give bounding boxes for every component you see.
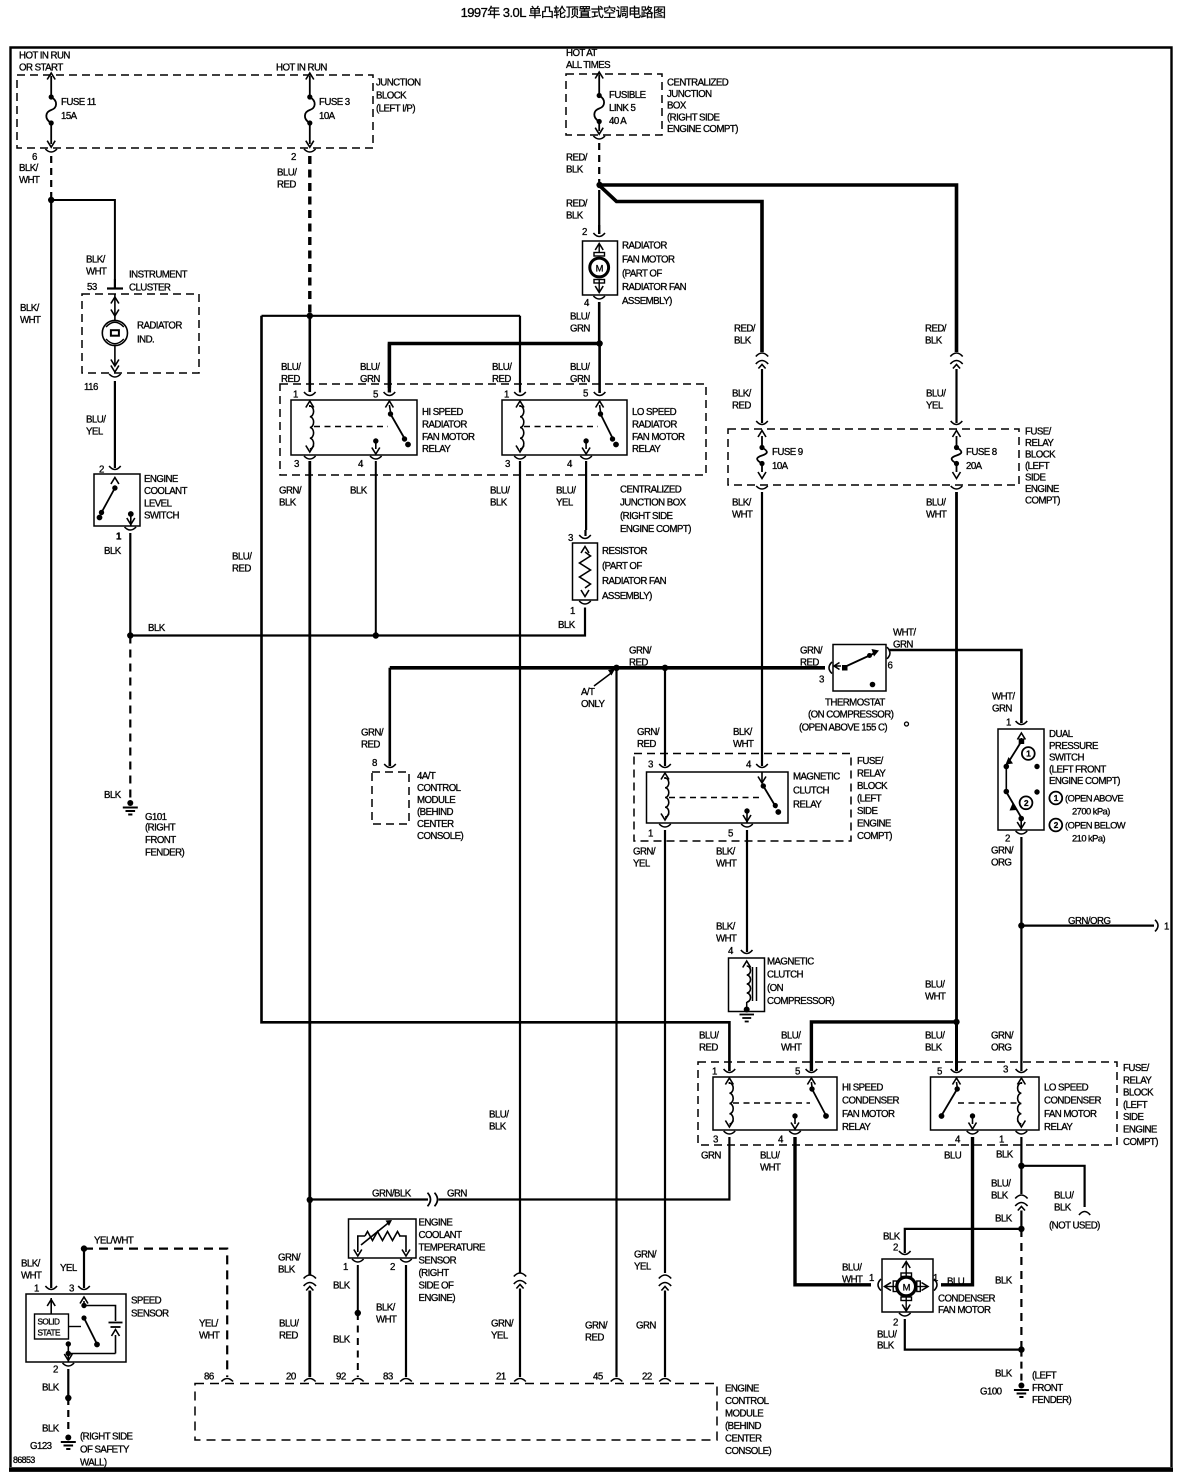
svg-text:(RIGHT: (RIGHT	[145, 823, 176, 834]
radiator fan motor symbol	[590, 244, 609, 293]
wire BLK/WHT label pin6	[19, 163, 40, 186]
svg-text:SWITCH: SWITCH	[1049, 753, 1084, 764]
fuse F8 pin top	[951, 421, 963, 437]
svg-text:(LEFT I/P): (LEFT I/P)	[376, 103, 415, 114]
svg-text:BLK: BLK	[333, 1280, 351, 1291]
label GRN/RED above bus	[629, 645, 652, 668]
svg-text:WHT: WHT	[716, 934, 737, 945]
relay K3 coil	[661, 778, 669, 820]
pin 2 radiator fan motor	[582, 225, 605, 238]
label GRN/YEL below K3 pin1	[633, 846, 656, 869]
label BLU/RED above K4 pin1	[699, 1030, 719, 1053]
svg-text:BLU/: BLU/	[570, 311, 590, 322]
svg-text:RED: RED	[699, 1043, 718, 1054]
relay K3 pin 5 stub	[743, 808, 751, 823]
label GRN/ORG above K5 pin3	[991, 1030, 1014, 1053]
svg-text:CONDENSER: CONDENSER	[842, 1096, 900, 1107]
svg-text:(LEFT: (LEFT	[857, 794, 882, 805]
radiator ind label	[137, 320, 182, 345]
label RED/BLK fuse8 col	[925, 323, 947, 346]
svg-text:MODULE: MODULE	[417, 795, 456, 806]
svg-text:COOLANT: COOLANT	[419, 1230, 463, 1241]
svg-text:1: 1	[504, 390, 509, 401]
wire BLK speed sensor	[42, 1369, 68, 1398]
ECT sensor label	[419, 1218, 487, 1305]
svg-text:1: 1	[1006, 718, 1011, 729]
wire motor pin4 to splice D	[598, 302, 601, 344]
pin 1 condenser motor left arc	[878, 1279, 881, 1291]
svg-text:GRN: GRN	[636, 1320, 656, 1331]
svg-text:BLK: BLK	[991, 1191, 1009, 1202]
svg-text:ASSEMBLY): ASSEMBLY)	[622, 296, 672, 307]
svg-text:INSTRUMENT: INSTRUMENT	[129, 269, 188, 280]
fuse relay block 2 label	[857, 756, 892, 842]
fuse F8 pin bottom	[951, 486, 963, 489]
resistor R1 box	[573, 543, 598, 600]
svg-text:ENGINE COMPT): ENGINE COMPT)	[667, 124, 738, 135]
ground G123	[30, 1432, 134, 1469]
label BLK below K5 pin1	[996, 1149, 1014, 1160]
svg-text:GRN/: GRN/	[800, 645, 823, 656]
svg-text:BLU/: BLU/	[490, 485, 510, 496]
svg-text:RED/: RED/	[734, 323, 756, 334]
magnetic clutch internal ground	[740, 1007, 755, 1022]
svg-text:5: 5	[373, 390, 378, 401]
svg-text:RED/: RED/	[566, 152, 588, 163]
radiator fan motor label	[622, 241, 687, 308]
svg-text:1: 1	[570, 606, 575, 617]
svg-text:(OPEN ABOVE: (OPEN ABOVE	[1065, 792, 1123, 803]
wire BLU/RED left long feed	[262, 316, 730, 1071]
svg-text:ONLY: ONLY	[581, 699, 606, 710]
feed arrow into fusible link	[595, 72, 603, 94]
pin 1 speed sensor	[34, 1284, 57, 1295]
resistor R1 zigzag	[580, 547, 591, 597]
node splice G (1021,925.6)	[1018, 922, 1024, 928]
pin 22 ECM	[642, 1372, 671, 1383]
relay K3 pin 3	[648, 760, 671, 780]
svg-text:YEL: YEL	[634, 1262, 652, 1273]
fuse F3 FUSE 3 10A	[305, 94, 350, 125]
fusible link dashed box	[566, 74, 662, 135]
label YEL/WHT col86	[199, 1318, 220, 1341]
svg-text:WHT: WHT	[732, 510, 753, 521]
wire BLU/WHT below fuse 8	[926, 492, 957, 1022]
svg-text:(OPEN ABOVE 155 C): (OPEN ABOVE 155 C)	[799, 723, 887, 734]
svg-text:OR START: OR START	[19, 63, 63, 74]
node splice F (665,668)	[662, 665, 668, 671]
svg-text:GRN/: GRN/	[491, 1318, 514, 1329]
svg-text:RADIATOR FAN: RADIATOR FAN	[622, 282, 687, 293]
svg-text:GRN: GRN	[701, 1150, 721, 1161]
wire BLK K5 pin1 to splice	[1020, 1137, 1022, 1166]
svg-text:ASSEMBLY): ASSEMBLY)	[602, 591, 652, 602]
wire BLU/YEL above fuse 8	[926, 369, 957, 423]
pin 1 ECT sensor	[343, 1259, 364, 1273]
svg-text:(RIGHT SIDE: (RIGHT SIDE	[667, 112, 721, 123]
label GRN on wire	[447, 1188, 467, 1199]
svg-text:BLK/: BLK/	[716, 846, 736, 857]
pin 2 coolant level switch	[99, 465, 121, 476]
node splice B (310,316)	[307, 313, 313, 319]
wire splice-B to relay K1 pin 1	[308, 316, 311, 392]
wire K1 pin3 GRN/BLK down to ECM pin 20	[308, 461, 311, 1275]
thermostat S2 box	[833, 645, 886, 692]
svg-text:45: 45	[593, 1372, 603, 1383]
thermostat pin 3	[819, 662, 832, 686]
svg-text:RADIATOR: RADIATOR	[422, 419, 467, 430]
label GRN/BLK col20	[278, 1252, 301, 1275]
svg-text:2: 2	[53, 1365, 58, 1376]
title text	[461, 5, 666, 20]
relay K5 pin 3	[1003, 1065, 1027, 1085]
node HOT IN RUN	[276, 63, 327, 74]
relay K3 pin 5	[728, 824, 753, 840]
relay K1 internal dashed link	[314, 426, 388, 428]
svg-text:(OPEN BELOW: (OPEN BELOW	[1065, 819, 1126, 830]
node splice H (956.5,1022)	[953, 1019, 959, 1025]
svg-text:(LEFT: (LEFT	[1025, 461, 1050, 472]
inline connector col20	[304, 1275, 316, 1291]
inline connector col22	[659, 1275, 671, 1291]
wire BLK ECT pin1	[333, 1265, 358, 1313]
svg-text:CENTRALIZED: CENTRALIZED	[620, 485, 682, 496]
svg-text:1: 1	[293, 390, 298, 401]
pin 2 condenser motor top arc	[899, 1251, 911, 1255]
pin 3 speed sensor	[69, 1284, 90, 1295]
svg-text:BLU/: BLU/	[1054, 1190, 1074, 1201]
fuse 3 to pin 2	[304, 123, 316, 152]
fusible link FL5 40A	[594, 90, 646, 127]
relay K2 label	[632, 407, 685, 455]
wire BLK dashed to ECM pin92	[333, 1313, 358, 1377]
svg-text:ORG: ORG	[991, 858, 1011, 869]
svg-text:GRN: GRN	[570, 374, 590, 385]
condenser fan motor label	[938, 1293, 996, 1316]
fuse F8 FUSE 8 20A	[952, 436, 997, 479]
svg-text:BLK: BLK	[490, 498, 508, 509]
node splice K (1021,1350)	[1018, 1346, 1024, 1352]
svg-text:BLU/: BLU/	[570, 362, 590, 373]
svg-text:ORG: ORG	[991, 1043, 1011, 1054]
svg-text:(ON: (ON	[767, 983, 784, 994]
resistor R1 pin 3	[568, 530, 591, 544]
svg-text:WALL): WALL)	[80, 1458, 107, 1469]
label BLK/WHT speed sensor	[21, 1258, 42, 1281]
label GRN below K4 pin3	[701, 1150, 721, 1161]
relay K2 pin 3	[505, 456, 526, 470]
svg-text:86: 86	[204, 1372, 214, 1383]
svg-text:CONDENSER: CONDENSER	[1044, 1096, 1102, 1107]
relay K2 lo speed radiator fan motor relay box	[502, 400, 627, 455]
relay K4 pin 5	[795, 1067, 817, 1088]
wire GRN K4 pin3 to splice B2	[310, 1137, 730, 1200]
fuse F9 FUSE 9 10A	[757, 436, 803, 479]
wire BLK/WHT below fuse 9	[732, 492, 762, 766]
relay K2 pin 1	[504, 316, 526, 408]
wire BLK dashed to G123	[42, 1398, 68, 1434]
svg-text:RELAY: RELAY	[857, 769, 886, 780]
svg-text:ENGINE: ENGINE	[1025, 484, 1060, 495]
wire BLK/WHT ECT pin2 to ECM pin83	[376, 1265, 406, 1377]
inline connector GRN/BLK-GRN	[428, 1193, 438, 1207]
svg-text:BLK: BLK	[104, 546, 122, 557]
svg-text:PRESSURE: PRESSURE	[1049, 741, 1099, 752]
svg-text:BLK: BLK	[558, 620, 576, 631]
svg-text:CONTROL: CONTROL	[725, 1396, 770, 1407]
svg-text:6: 6	[888, 661, 893, 672]
svg-text:(NOT USED): (NOT USED)	[1049, 1220, 1100, 1231]
relay K1 label	[422, 407, 475, 455]
4AT control module dashed box	[372, 772, 409, 824]
label BLU/RED above K1 pin1	[281, 362, 301, 385]
svg-text:RADIATOR FAN: RADIATOR FAN	[602, 576, 667, 587]
svg-text:2: 2	[893, 1318, 898, 1329]
svg-text:(RIGHT: (RIGHT	[419, 1268, 450, 1279]
wire resistor pin1 to BLK bus	[130, 608, 585, 636]
svg-text:FUSE/: FUSE/	[857, 756, 884, 767]
wire YEL to speed sensor pin3	[60, 1249, 84, 1288]
svg-text:WHT: WHT	[20, 315, 41, 326]
relay K3 switch arm	[758, 772, 781, 815]
svg-text:15A: 15A	[61, 111, 78, 122]
svg-text:FAN MOTOR: FAN MOTOR	[938, 1305, 991, 1316]
wire BLK/WHT long left column	[50, 200, 52, 1288]
svg-text:BLOCK: BLOCK	[857, 781, 888, 792]
fusible link to bottom pin	[593, 121, 605, 139]
svg-text:FRONT: FRONT	[145, 835, 176, 846]
svg-text:BLK/: BLK/	[732, 497, 752, 508]
svg-text:GRN/: GRN/	[278, 1252, 301, 1263]
svg-text:BLU/: BLU/	[781, 1030, 801, 1041]
svg-text:BLK: BLK	[489, 1122, 507, 1133]
svg-text:SIDE: SIDE	[857, 806, 878, 817]
wire GRN/RED to 4AT module	[361, 668, 390, 766]
relay K2 pin 4 stub	[582, 438, 590, 454]
svg-text:2: 2	[582, 227, 587, 238]
svg-text:MAGNETIC: MAGNETIC	[793, 772, 840, 783]
wire splice-A to instrument cluster corner	[51, 200, 115, 279]
svg-text:CONTROL: CONTROL	[417, 783, 462, 794]
svg-text:G100: G100	[980, 1387, 1003, 1398]
node splice YEL (84,1248.6)	[81, 1245, 87, 1251]
wire GRN to ECM pin22	[636, 1291, 665, 1378]
dual pressure switch label	[1049, 729, 1120, 787]
label GRN/BLK on wire	[372, 1188, 412, 1199]
svg-text:BLU/: BLU/	[360, 362, 380, 373]
wire RED/BLK thick bus to fuse 9 column	[601, 187, 763, 353]
svg-text:HI SPEED: HI SPEED	[842, 1083, 883, 1094]
svg-text:BLU/: BLU/	[760, 1150, 780, 1161]
svg-text:5: 5	[795, 1067, 800, 1078]
relay K1 pin 4 stub	[372, 438, 380, 454]
svg-text:WHT: WHT	[842, 1275, 863, 1286]
svg-text:210 kPa): 210 kPa)	[1072, 832, 1106, 843]
svg-text:BLU/: BLU/	[842, 1262, 862, 1273]
svg-text:BLK/: BLK/	[733, 727, 753, 738]
radiator indicator lamp	[102, 294, 127, 366]
svg-text:20A: 20A	[966, 461, 983, 472]
svg-text:COMPT): COMPT)	[857, 831, 892, 842]
wire BLK dashed to G100	[995, 1350, 1021, 1382]
relay K3 pin 1	[648, 824, 671, 840]
svg-text:10A: 10A	[319, 111, 336, 122]
svg-text:YEL: YEL	[926, 401, 944, 412]
svg-text:BLU/: BLU/	[279, 1318, 299, 1329]
svg-text:FAN MOTOR: FAN MOTOR	[622, 254, 675, 265]
svg-text:(BEHIND: (BEHIND	[725, 1421, 762, 1432]
thermostat pin 6	[887, 647, 893, 671]
instrument cluster dashed box	[82, 294, 199, 373]
svg-text:BLOCK: BLOCK	[376, 90, 407, 101]
svg-text:BLU/: BLU/	[926, 388, 946, 399]
svg-text:M: M	[903, 1281, 911, 1292]
svg-text:SIDE: SIDE	[1123, 1112, 1144, 1123]
label GRN/BLK below K1 pin3	[279, 485, 302, 508]
svg-text:CONDENSER: CONDENSER	[938, 1293, 996, 1304]
svg-text:RED: RED	[800, 658, 819, 669]
svg-text:RED: RED	[637, 739, 656, 750]
relay K1 hi speed radiator fan motor relay box	[291, 400, 417, 455]
relay K5 coil	[1017, 1083, 1025, 1127]
ECT thermistor	[354, 1220, 410, 1256]
svg-text:FRONT: FRONT	[1032, 1383, 1063, 1394]
svg-text:ENGINE: ENGINE	[144, 474, 179, 485]
node splice ECT (358,1313)	[355, 1310, 361, 1316]
svg-text:FAN MOTOR: FAN MOTOR	[422, 432, 475, 443]
svg-text:RED: RED	[361, 740, 380, 751]
svg-text:BLK: BLK	[995, 1213, 1013, 1224]
svg-text:RED: RED	[279, 1331, 298, 1342]
svg-text:COMPRESSOR): COMPRESSOR)	[767, 996, 834, 1007]
wire BLK coolant switch	[104, 533, 130, 636]
pin 116 instrument cluster	[84, 366, 121, 394]
thermostat switch	[834, 649, 879, 687]
svg-text:1: 1	[343, 1262, 348, 1273]
label BLK below K1 pin4	[350, 485, 368, 496]
svg-text:BLU/: BLU/	[991, 1178, 1011, 1189]
svg-text:BLK: BLK	[148, 623, 166, 634]
svg-text:WHT: WHT	[733, 739, 754, 750]
svg-text:BLK: BLK	[279, 498, 297, 509]
svg-text:ENGINE): ENGINE)	[419, 1293, 456, 1304]
resistor R1 pin 1	[558, 601, 591, 631]
svg-text:FUSE 3: FUSE 3	[319, 97, 350, 108]
svg-text:FUSE 8: FUSE 8	[966, 447, 997, 458]
svg-text:CONSOLE): CONSOLE)	[725, 1446, 772, 1457]
wire BLU/GRN thick branch to K1 pin 5	[389, 344, 599, 389]
pin 53 instrument cluster	[87, 279, 123, 304]
magnetic clutch L1 box	[729, 958, 765, 1012]
wire GRN/RED label thermostat	[800, 645, 823, 668]
svg-text:FAN MOTOR: FAN MOTOR	[1044, 1109, 1097, 1120]
svg-text:RADIATOR: RADIATOR	[632, 419, 677, 430]
pin 4 magnetic clutch	[728, 946, 753, 957]
feed arrow into fuse 11	[47, 73, 55, 95]
label RED/BLK fuse9 col	[734, 323, 756, 346]
relay K3 magnetic clutch relay box	[647, 772, 789, 823]
wire BLK motor pin2 top	[883, 1229, 1021, 1254]
svg-text:SIDE: SIDE	[1025, 473, 1046, 484]
wire K1 pin4 BLK down to BLK bus	[375, 461, 377, 636]
condenser fan motor M2 box	[882, 1259, 933, 1312]
pin 83 ECM	[383, 1372, 412, 1383]
label BLU/WHT above splice H	[925, 979, 946, 1002]
svg-text:YEL/WHT: YEL/WHT	[94, 1236, 134, 1247]
svg-text:BLK/: BLK/	[20, 303, 40, 314]
svg-text:GRN/: GRN/	[634, 1249, 657, 1260]
svg-text:JUNCTION: JUNCTION	[667, 89, 712, 100]
label BLU/GRN above K1 pin5	[360, 362, 380, 385]
wire BLU/RED label pin2	[277, 167, 297, 190]
centralized junction box label top	[667, 77, 738, 135]
svg-text:(ON COMPRESSOR): (ON COMPRESSOR)	[808, 710, 894, 721]
svg-text:FUSE 11: FUSE 11	[61, 97, 96, 108]
svg-text:SENSOR: SENSOR	[419, 1255, 457, 1266]
ground G100	[980, 1371, 1072, 1407]
svg-text:FENDER): FENDER)	[1032, 1395, 1072, 1406]
svg-text:LINK 5: LINK 5	[609, 103, 635, 114]
svg-text:(BEHIND: (BEHIND	[417, 807, 454, 818]
svg-text:86853: 86853	[13, 1455, 35, 1465]
wire BLU/WHT branch to K4 pin5	[811, 1022, 956, 1071]
label BLU/YEL below K2 pin4	[556, 485, 576, 508]
svg-text:BLK: BLK	[925, 336, 943, 347]
wire BLU/GRN label 2	[570, 362, 590, 385]
node splice C (599,185)	[596, 182, 602, 188]
svg-text:RED: RED	[277, 180, 296, 191]
svg-text:CENTER: CENTER	[725, 1434, 762, 1445]
svg-text:GRN/: GRN/	[991, 845, 1014, 856]
svg-text:HI SPEED: HI SPEED	[422, 407, 463, 418]
svg-text:8: 8	[372, 758, 377, 769]
node splice J (1021,1229)	[1018, 1226, 1024, 1232]
relay K5 pin 4 stub	[969, 1113, 977, 1129]
svg-text:RELAY: RELAY	[793, 800, 822, 811]
svg-text:HOT IN RUN: HOT IN RUN	[19, 50, 70, 61]
node splice E (616.5,668)	[613, 665, 619, 671]
svg-text:RELAY: RELAY	[422, 444, 451, 455]
svg-text:(RIGHT SIDE: (RIGHT SIDE	[620, 511, 674, 522]
svg-text:1997年 3.0L 单凸轮顶置式空调电路图: 1997年 3.0L 单凸轮顶置式空调电路图	[461, 5, 666, 20]
svg-text:GRN/: GRN/	[629, 645, 652, 656]
magnetic clutch label	[767, 957, 834, 1008]
wire RED/BLK thick bus to fuse 8 column	[600, 185, 957, 352]
label WHT/GRN 2	[992, 691, 1015, 714]
relay K2 coil	[516, 406, 524, 452]
radiator fan motor M1 box	[583, 241, 618, 295]
wire GRN/RED bus	[390, 666, 825, 670]
speed sensor internal pin3 chain	[64, 1297, 122, 1362]
svg-text:10A: 10A	[772, 461, 789, 472]
svg-text:FAN MOTOR: FAN MOTOR	[842, 1109, 895, 1120]
relay K5 lo speed condenser fan motor relay box	[931, 1077, 1040, 1130]
svg-text:5: 5	[583, 389, 588, 400]
feed arrow into fuse 3	[306, 73, 314, 95]
svg-text:BLU/: BLU/	[926, 497, 946, 508]
node splice BLK bus / K1 pin4	[373, 632, 379, 638]
wire BLK/WHT label left column	[20, 303, 41, 326]
svg-text:1: 1	[648, 829, 653, 840]
label BLU/WHT at motor	[842, 1262, 874, 1285]
relay K2 pin 4	[567, 456, 592, 470]
centralized junction box label right	[620, 485, 691, 536]
label BLU/WHT above K4 pin5	[781, 1030, 802, 1053]
svg-text:HOT IN RUN: HOT IN RUN	[276, 63, 327, 74]
svg-text:BLU/: BLU/	[277, 167, 297, 178]
svg-text:BLK/: BLK/	[376, 1302, 396, 1313]
wire GRN/ORG stub to right	[1021, 916, 1169, 933]
